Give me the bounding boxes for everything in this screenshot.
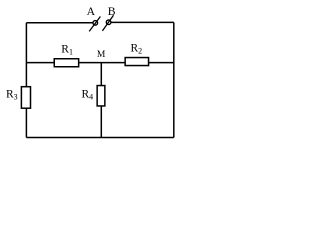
- svg-text:A: A: [87, 5, 96, 18]
- wire top-right segment (terminal B to right corner): [111, 21, 174, 23]
- wire middle rail (through R1, M, R2): [26, 62, 173, 64]
- wire top-left segment (top rail from left corner to terminal A): [26, 22, 93, 24]
- resistor R3: [21, 87, 30, 109]
- resistor R1: [54, 59, 78, 67]
- wire left edge: [25, 23, 27, 138]
- terminal B (circle with plug slash): [102, 15, 113, 31]
- svg-text:M: M: [97, 50, 106, 60]
- wire from node M down through R4 to bottom rail: [100, 63, 102, 138]
- resistor R4: [97, 86, 105, 106]
- terminal A (circle with plug slash): [89, 17, 100, 32]
- wire right edge: [173, 22, 175, 137]
- resistor R2: [125, 58, 148, 66]
- svg-text:B: B: [108, 5, 116, 18]
- wire bottom edge: [26, 137, 173, 139]
